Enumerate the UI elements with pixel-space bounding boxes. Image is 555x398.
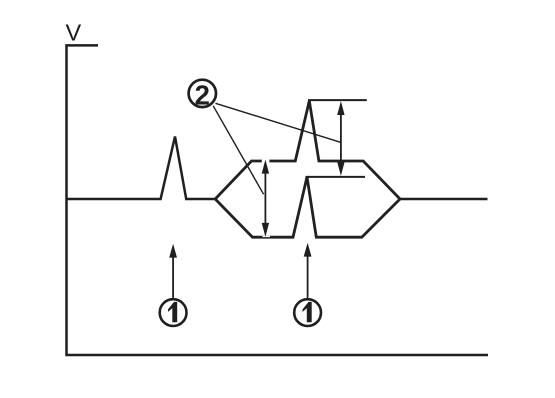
reference line at surge peak level: [308, 99, 367, 101]
surge envelope lower outline with inner ripple spike: [215, 177, 400, 237]
leader line from balloon 2 to left measurement arrow: [213, 106, 263, 195]
pointer arrow from left balloon 1 to first ripple spike: [169, 244, 177, 298]
pointer arrow from right balloon 1 to inner ripple spike: [304, 243, 312, 298]
balloon 2 (circled 2): [189, 79, 216, 110]
svg-text:2: 2: [195, 79, 210, 110]
voltage axis (top tick, vertical axis, time axis): [67, 45, 489, 355]
reference line at inner spike peak level: [306, 176, 366, 178]
dimension gap in upper envelope edge at arrow: [262, 159, 270, 162]
dimension gap in lower envelope edge at arrow: [263, 236, 271, 237]
baseline with small ripple spike (left): [67, 137, 216, 200]
leader line from balloon 2 to right measurement arrow: [216, 103, 342, 142]
surge envelope upper outline with tall surge peak: [215, 101, 400, 199]
measurement arrow between peak levels (right): [337, 101, 344, 176]
measurement arrow across surge envelope height (left): [262, 160, 269, 237]
balloon 1 right (circled 1): [294, 299, 321, 326]
svg-text:V: V: [66, 20, 82, 46]
balloon 1 left (circled 1): [160, 299, 187, 326]
baseline right segment: [400, 198, 488, 201]
